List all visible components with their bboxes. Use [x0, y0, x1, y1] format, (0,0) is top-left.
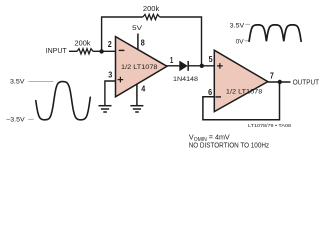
- wire feedback top right segment: [160, 17, 202, 66]
- resistor R2 200k (feedback): [143, 14, 160, 19]
- svg-text:–3.5V: –3.5V: [6, 117, 25, 124]
- ref line -3.5V: [28, 118, 34, 120]
- op-amp U1 1/2 LT1078: [116, 37, 168, 97]
- wire pin 6 feedback loop: [203, 82, 280, 120]
- svg-text:1N4148: 1N4148: [173, 76, 198, 83]
- svg-text:200k: 200k: [143, 6, 160, 13]
- svg-text:1/2 LT1078: 1/2 LT1078: [226, 88, 263, 95]
- svg-text:4: 4: [141, 84, 145, 93]
- svg-text:1/2 LT1078: 1/2 LT1078: [121, 64, 158, 71]
- ref dash 0V: [244, 40, 249, 42]
- svg-text:3.5V: 3.5V: [10, 79, 25, 86]
- wire diode to node B: [188, 65, 214, 67]
- wire R1 to node A: [93, 50, 116, 52]
- svg-text:7: 7: [270, 72, 274, 81]
- input sine waveform: [36, 82, 91, 120]
- ground (pin 4): [130, 106, 143, 112]
- node A junction dot: [99, 49, 103, 53]
- wire U1 output to diode: [167, 65, 180, 67]
- svg-text:2: 2: [108, 40, 112, 49]
- svg-text:5: 5: [209, 55, 213, 64]
- svg-text:OUTPUT: OUTPUT: [293, 77, 320, 86]
- ref line 3.5V: [29, 80, 54, 82]
- wire INPUT lead to R1: [69, 50, 77, 52]
- wire node A riser to feedback: [101, 17, 103, 51]
- node B junction dot: [200, 64, 204, 68]
- diode D1 1N4148: [180, 61, 189, 71]
- wire pin 3 to ground: [105, 81, 116, 106]
- svg-text:6: 6: [208, 88, 212, 97]
- wire U2 output: [268, 81, 291, 83]
- svg-text:5V: 5V: [132, 25, 142, 32]
- svg-text:LT1078/79 • TA08: LT1078/79 • TA08: [248, 123, 292, 128]
- wire pin 4 to ground: [136, 84, 138, 106]
- node C junction dot: [278, 80, 282, 84]
- output rectified waveform: [249, 25, 301, 41]
- svg-text:3: 3: [108, 71, 112, 80]
- svg-text:1: 1: [170, 56, 174, 65]
- svg-text:NO DISTORTION TO 100Hz: NO DISTORTION TO 100Hz: [189, 141, 270, 150]
- resistor R1 200k (input): [77, 49, 93, 54]
- ground (pin 3): [99, 106, 112, 112]
- wire 5V to pin 8: [137, 34, 139, 50]
- op-amp U2 1/2 LT1078: [214, 50, 267, 111]
- svg-text:200k: 200k: [75, 40, 92, 47]
- svg-text:3.5V: 3.5V: [230, 22, 245, 29]
- svg-text:INPUT: INPUT: [46, 46, 67, 55]
- wire feedback top left segment: [101, 16, 143, 18]
- ref dash 3.5V output: [245, 23, 250, 25]
- svg-text:0V: 0V: [236, 39, 244, 46]
- svg-text:8: 8: [141, 38, 145, 47]
